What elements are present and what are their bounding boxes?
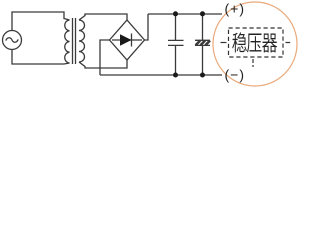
- wire secondary top: [79, 14, 127, 20]
- regulator dashed box: [229, 28, 284, 57]
- top rail: [148, 13, 222, 15]
- diode D1 bar: [131, 34, 133, 47]
- wire secondary bottom: [79, 60, 127, 68]
- transformer T1 primary: [65, 20, 70, 63]
- wire primary top: [12, 12, 70, 31]
- wire bridge minus: [100, 40, 110, 75]
- wire capacitor C1 branch: [175, 14, 177, 75]
- label regulator: [232, 32, 247, 52]
- bottom rail: [100, 74, 222, 76]
- wire capacitor C2 branch: [202, 14, 204, 75]
- bridge rectifier diamond: [110, 20, 145, 60]
- svg-text:(+): (+): [225, 1, 246, 17]
- svg-text:(−): (−): [225, 67, 246, 83]
- transformer T1 secondary: [79, 20, 85, 62]
- capacitor C2 hatch: [196, 41, 210, 46]
- transformer core: [73, 18, 76, 64]
- highlight circle: [213, 2, 297, 86]
- junction dot C2 bottom: [200, 73, 205, 78]
- ac source G1 sine: [6, 38, 18, 43]
- wire bridge plus: [145, 14, 149, 40]
- wire primary bottom: [12, 50, 70, 65]
- junction dot C2 top: [200, 11, 205, 16]
- stub left: [221, 42, 227, 44]
- capacitor C1 plates: [168, 40, 184, 45]
- junction dot C1 bottom: [173, 73, 178, 78]
- diode D1 triangle: [120, 34, 132, 46]
- junction dot C1 top: [173, 11, 178, 16]
- stub bottom: [252, 59, 254, 67]
- diode D1 line: [112, 39, 142, 41]
- ac source G1 circle: [3, 31, 22, 50]
- stub right: [286, 42, 291, 44]
- capacitor C2 plates: [195, 40, 210, 45]
